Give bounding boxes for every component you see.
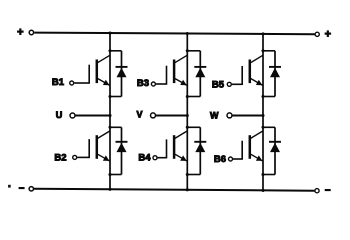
svg-text:V: V (136, 109, 142, 119)
svg-text:+: + (17, 27, 23, 39)
svg-text:W: W (210, 110, 219, 120)
svg-text:B4: B4 (138, 152, 151, 163)
svg-text:B3: B3 (137, 78, 149, 89)
svg-text:B6: B6 (214, 154, 226, 165)
svg-text:B1: B1 (52, 77, 65, 88)
svg-text:+: + (325, 28, 331, 40)
svg-text:−: − (325, 185, 331, 196)
svg-text:B2: B2 (54, 153, 66, 164)
svg-text:B5: B5 (212, 79, 225, 90)
svg-text:−: − (19, 183, 25, 194)
svg-text:U: U (56, 110, 63, 120)
